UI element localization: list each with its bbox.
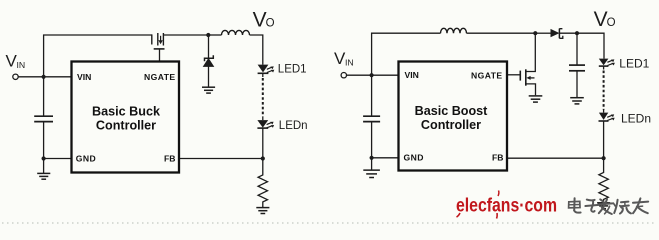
LEDn (buck string bottom) — [257, 120, 274, 128]
char dian — [573, 198, 575, 210]
diode D1 (freewheel schottky) — [204, 35, 214, 87]
wire output node to Vo corner — [577, 33, 604, 58]
wire FB node to box FB — [179, 158, 263, 160]
svg-text:NGATE: NGATE — [144, 72, 175, 82]
ground (Q2 source) — [529, 96, 543, 102]
svg-text:Controller: Controller — [96, 119, 156, 133]
svg-text:GND: GND — [76, 154, 96, 164]
svg-text:Controller: Controller — [421, 118, 481, 132]
resistor R2 (current sense) — [599, 158, 608, 202]
inductor L1 — [222, 30, 250, 35]
inductor L2 — [441, 28, 467, 33]
label Vo (buck output) — [253, 9, 275, 32]
svg-text:LED1: LED1 — [619, 57, 649, 71]
wire LEDn to FB node (boost) — [603, 121, 605, 158]
bottom dotted border — [2, 222, 657, 224]
node FB junction (boost) — [602, 156, 606, 160]
input terminal circle — [13, 74, 18, 79]
svg-text:LED1: LED1 — [278, 64, 307, 76]
node gnd junction (boost) — [370, 156, 374, 160]
node input junction (boost) — [370, 73, 374, 77]
svg-text:IN: IN — [345, 58, 354, 68]
wire output node to cap C3 — [576, 33, 578, 65]
svg-text:GND: GND — [404, 153, 424, 163]
wire Q1 to switch node — [163, 34, 208, 36]
svg-text:Basic Buck: Basic Buck — [92, 105, 161, 119]
LED1 (buck string top) — [258, 65, 275, 74]
node switch junction — [206, 33, 210, 37]
svg-text:NGATE: NGATE — [471, 70, 502, 80]
op-amp U2 box: Basic Boost Controller — [399, 62, 508, 171]
label VIN (boost input) — [334, 49, 354, 68]
wire diode to output node — [559, 32, 577, 34]
wire cap to gnd node — [43, 122, 45, 159]
wire input to box VIN — [18, 76, 71, 78]
LED1 (boost string top) — [599, 59, 615, 67]
svg-text:O: O — [607, 17, 616, 29]
svg-text:LEDn: LEDn — [621, 111, 651, 125]
char shao — [614, 200, 617, 213]
wire FB node to box FB (boost) — [507, 157, 604, 159]
transistor Q1 (high-side MOSFET) — [152, 33, 165, 49]
wire input to box VIN (boost) — [347, 74, 399, 76]
wire Q1 gate to box NGATE — [159, 49, 161, 62]
wire dashed LED string (buck) — [262, 73, 264, 77]
capacitor C2 (boost input) — [363, 116, 380, 121]
ground (R2) — [597, 203, 610, 209]
svg-text:FB: FB — [164, 154, 175, 164]
node gnd junction — [42, 156, 46, 160]
char zi — [587, 199, 595, 202]
svg-text:VIN: VIN — [405, 70, 419, 80]
char fa — [600, 199, 604, 202]
svg-text:Basic Boost: Basic Boost — [415, 104, 489, 118]
label VIN (input) — [6, 51, 26, 70]
wire cap C3 to ground — [576, 71, 578, 98]
input terminal circle (boost) — [341, 73, 346, 78]
wire vertical input rail (boost) — [372, 33, 441, 116]
node output junction (boost) — [575, 31, 579, 35]
wire cap to gnd node (boost) — [371, 122, 373, 158]
capacitor C3 (boost output) — [569, 65, 585, 71]
watermark chinese characters 电子发烧友 — [569, 198, 649, 214]
capacitor C1 — [34, 116, 53, 121]
LEDn (boost string bottom) — [599, 113, 615, 121]
svg-text:elecfans·com: elecfans·com — [456, 195, 557, 217]
wire inductor to Vo corner — [250, 35, 263, 65]
svg-text:LEDn: LEDn — [279, 120, 308, 132]
wire gnd node to box GND (boost) — [372, 157, 399, 159]
op-amp U1 box: Basic Buck Controller — [72, 62, 180, 173]
transistor Q2 (boost switch) — [520, 33, 535, 95]
svg-text:VIN: VIN — [77, 72, 91, 82]
wire dashed LED string (boost) — [603, 66, 605, 69]
svg-text:V: V — [594, 8, 608, 31]
diode D2 (boost rectifier schottky) — [551, 29, 563, 39]
ground (diode) — [202, 87, 215, 93]
wire inductor to switch node — [467, 32, 536, 34]
svg-text:IN: IN — [17, 60, 26, 70]
ground (boost input) — [363, 158, 380, 178]
node input junction — [42, 75, 46, 79]
wire gnd node to box GND — [44, 158, 72, 160]
watermark elecfans.com logo — [456, 191, 557, 219]
char you — [633, 202, 648, 203]
node FB junction (buck) — [261, 156, 265, 160]
svg-text:FB: FB — [492, 153, 503, 163]
ground (C3) — [570, 98, 584, 104]
svg-text:O: O — [266, 18, 275, 30]
ground (R1) — [256, 208, 269, 214]
ground (input) — [37, 159, 50, 180]
node switch junction (boost) — [533, 31, 537, 35]
label Vo (boost output) — [594, 8, 616, 31]
wire switch node to diode — [535, 32, 551, 34]
wire LEDn to FB node — [262, 128, 264, 158]
wire box NGATE to Q2 gate — [507, 74, 520, 76]
resistor R1 (current sense) — [258, 159, 267, 208]
wire switch node to inductor — [208, 34, 221, 36]
svg-text:V: V — [253, 9, 267, 32]
wire vertical input rail upper — [44, 35, 152, 116]
